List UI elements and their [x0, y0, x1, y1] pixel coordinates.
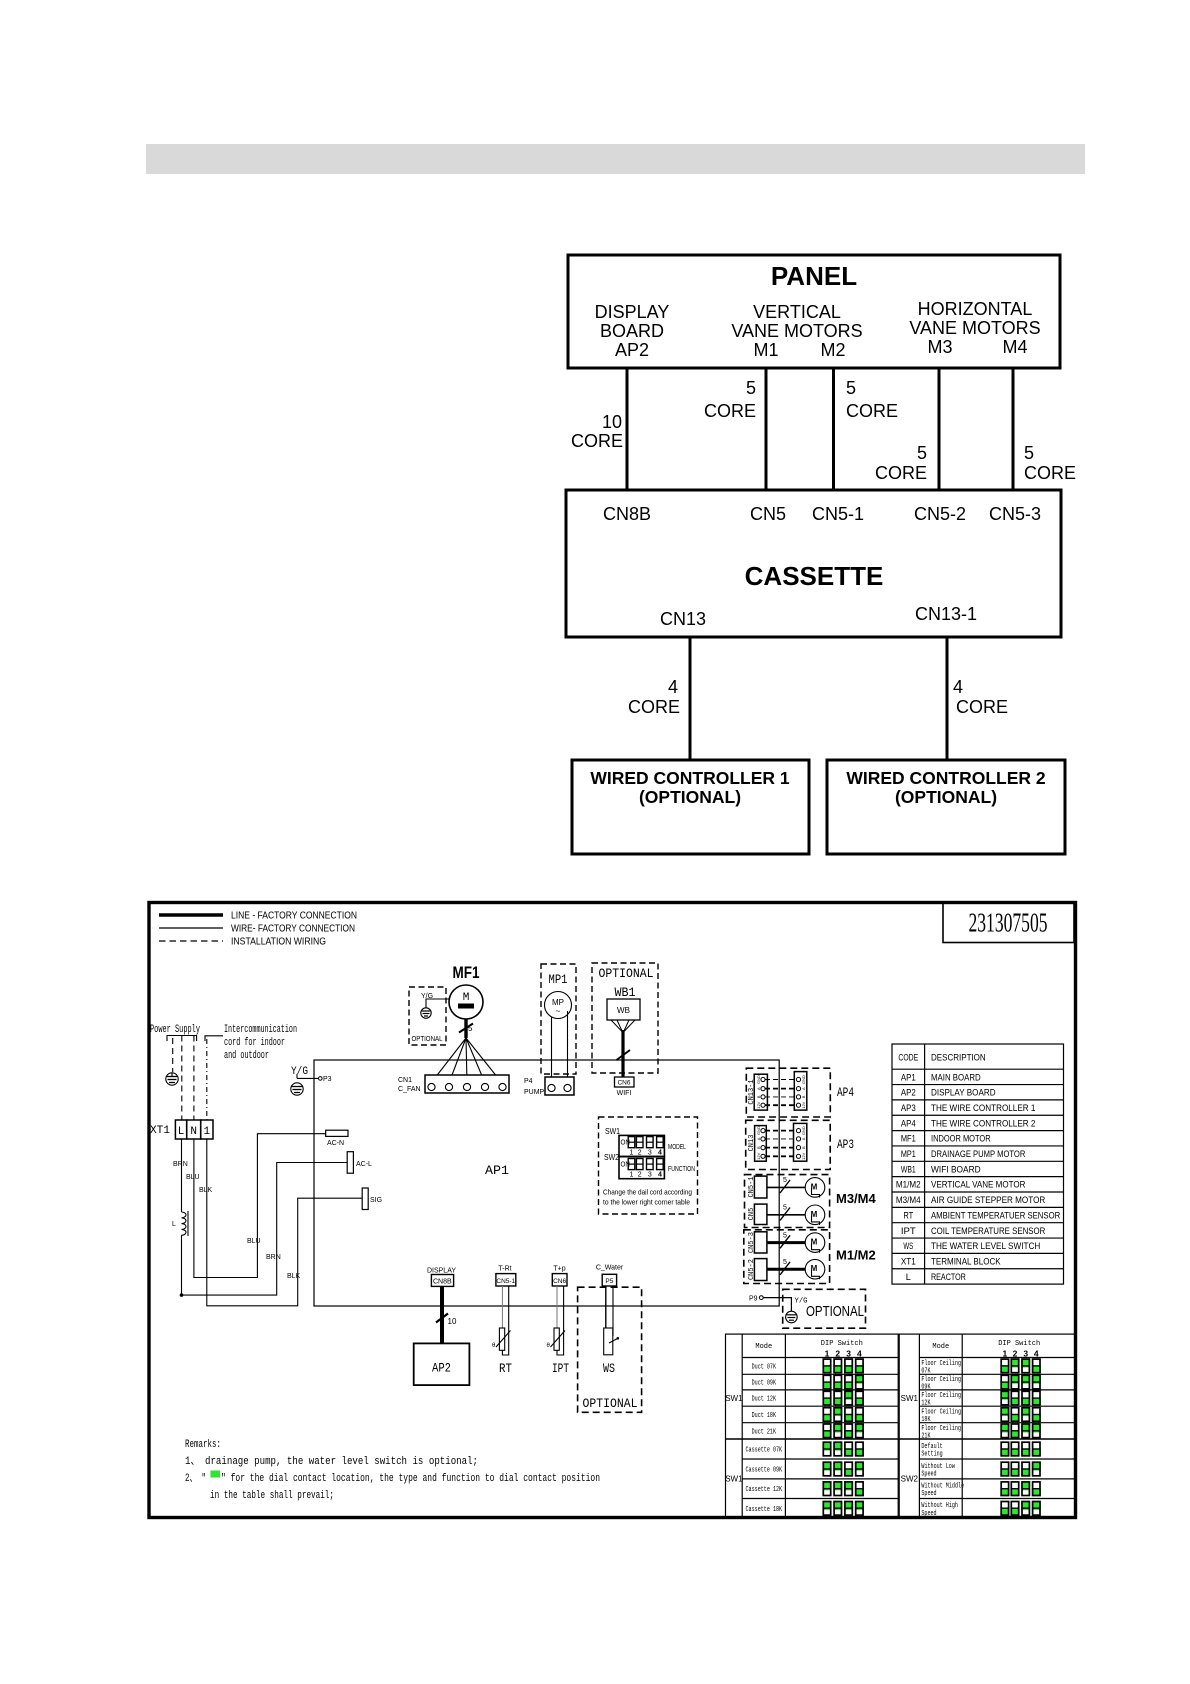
wire to RT sensor — [502, 1286, 508, 1355]
wire M4 to CN5-3 — [1012, 368, 1015, 490]
svg-text:WIRED CONTROLLER 2: WIRED CONTROLLER 2 — [846, 768, 1046, 788]
dip row Duct 21K — [752, 1424, 864, 1438]
svg-text:Cassette 09K: Cassette 09K — [746, 1467, 783, 1475]
connector P5 (C_Water) — [596, 1265, 624, 1287]
svg-text:BLU: BLU — [247, 1238, 261, 1245]
svg-text:L: L — [906, 1272, 911, 1283]
svg-text:CORE: CORE — [846, 401, 898, 421]
label 4 CORE (right) — [953, 677, 1008, 717]
svg-text:WIRE- FACTORY CONNECTION: WIRE- FACTORY CONNECTION — [231, 923, 355, 935]
wire CN5-3 to M1 (thick) — [767, 1232, 806, 1248]
svg-text:SW1: SW1 — [725, 1394, 743, 1403]
svg-text:CN5-2: CN5-2 — [914, 504, 966, 524]
connector CN5 — [748, 1204, 767, 1224]
svg-text:WS: WS — [903, 1241, 913, 1252]
wire AP2 to CN8B — [626, 368, 629, 490]
svg-text:5: 5 — [846, 378, 856, 398]
svg-text:CN13-1: CN13-1 — [748, 1079, 756, 1104]
svg-text:C_FAN: C_FAN — [398, 1086, 421, 1093]
wire power L (dashed) — [172, 1038, 174, 1072]
svg-text:XT1: XT1 — [901, 1256, 916, 1267]
sensor IPT (coil temperature) — [547, 1328, 570, 1376]
svg-text:CN5-1: CN5-1 — [812, 504, 864, 524]
svg-text:CN5-3: CN5-3 — [989, 504, 1041, 524]
dip row Floor Ceiling 12K — [921, 1391, 1040, 1407]
svg-text:A: A — [756, 1137, 761, 1140]
motor MP — [545, 992, 572, 1019]
dip row Duct 07K — [752, 1359, 864, 1373]
motor M2 — [805, 1259, 825, 1279]
svg-text:5: 5 — [783, 1259, 787, 1266]
dip row Cassette 09K — [746, 1462, 864, 1476]
svg-text:GND: GND — [801, 1075, 806, 1084]
vertical vane motors group M1/M2 (dashed box) — [744, 1230, 876, 1284]
dip table right (SW1/SW2) — [899, 1334, 1076, 1518]
svg-text:T-Rt: T-Rt — [498, 1266, 511, 1273]
wire CN13 to wired controller 1 — [689, 637, 692, 760]
wire MP1 to P4 — [552, 1011, 568, 1077]
connector AP3 side — [794, 1123, 807, 1161]
connector CN5-1 (T-Rt) — [496, 1266, 516, 1287]
svg-text:CN5-3: CN5-3 — [748, 1232, 756, 1253]
svg-text:in the table shall prevail;: in the table shall prevail; — [210, 1490, 334, 1502]
svg-text:THE WIRE CONTROLLER 1: THE WIRE CONTROLLER 1 — [931, 1103, 1035, 1114]
svg-text:PANEL: PANEL — [771, 261, 857, 291]
svg-text:2、 ": 2、 " — [185, 1473, 206, 1485]
dip table left (SW1 model) group labels — [725, 1394, 743, 1483]
svg-text:A: A — [756, 1087, 761, 1090]
svg-text:CN13: CN13 — [660, 609, 706, 629]
connector CN1 C_FAN — [398, 1075, 509, 1093]
svg-text:A: A — [801, 1137, 806, 1140]
svg-text:OPTIONAL: OPTIONAL — [599, 966, 654, 981]
svg-text:Cassette 18K: Cassette 18K — [746, 1506, 783, 1514]
connector P4 PUMP — [524, 1077, 574, 1096]
svg-text:CORE: CORE — [1024, 463, 1076, 483]
connector CN5-3 — [748, 1232, 767, 1253]
wire CN5-1 to M3 — [767, 1177, 806, 1193]
svg-text:5: 5 — [746, 378, 756, 398]
motor MF1 — [449, 985, 483, 1019]
svg-text:M3: M3 — [927, 337, 952, 357]
gray header bar — [146, 144, 1085, 174]
svg-text:231307505: 231307505 — [969, 908, 1048, 938]
diagram border frame — [149, 903, 1076, 1518]
svg-text:CORE: CORE — [875, 463, 927, 483]
ground Y/G with P3 — [291, 1066, 332, 1095]
svg-text:Mode: Mode — [755, 1343, 772, 1351]
svg-text:~: ~ — [556, 1007, 561, 1016]
svg-text:Speed: Speed — [921, 1490, 936, 1498]
svg-text:WB1: WB1 — [615, 985, 636, 1000]
svg-text:WIFI BOARD: WIFI BOARD — [931, 1164, 981, 1175]
svg-text:5: 5 — [917, 443, 927, 463]
motor M1 — [805, 1233, 825, 1253]
wire CN13-1 to wired controller 2 — [946, 637, 949, 760]
svg-text:12K: 12K — [921, 1400, 931, 1408]
svg-text:AC-L: AC-L — [356, 1161, 372, 1168]
legend: factory line connection — [159, 910, 357, 922]
terminal block XT1 — [150, 1120, 213, 1139]
svg-text:WB1: WB1 — [901, 1164, 916, 1175]
dip row Cassette 18K — [746, 1502, 864, 1516]
svg-text:CORE: CORE — [704, 401, 756, 421]
svg-text:VERTICAL: VERTICAL — [753, 302, 841, 322]
svg-text:07K: 07K — [921, 1367, 931, 1375]
dip row Default Setting — [921, 1442, 1040, 1458]
optional ground box (P9) — [783, 1289, 866, 1328]
inductor L (reactor) — [172, 1139, 188, 1236]
svg-text:Power Supply: Power Supply — [150, 1024, 200, 1036]
svg-text:AP3: AP3 — [837, 1137, 854, 1152]
svg-text:10: 10 — [602, 412, 622, 432]
svg-text:SW1: SW1 — [901, 1394, 919, 1403]
svg-text:CN5: CN5 — [748, 1208, 756, 1221]
svg-text:DRAINAGE PUMP MOTOR: DRAINAGE PUMP MOTOR — [931, 1149, 1026, 1160]
optional ground box (MF1) — [409, 987, 446, 1045]
svg-text:PUMP: PUMP — [524, 1089, 545, 1096]
svg-text:1: 1 — [630, 1172, 634, 1179]
dip table right (SW1/SW2) group labels — [901, 1394, 919, 1483]
svg-text:CODE: CODE — [898, 1053, 918, 1064]
svg-text:4: 4 — [857, 1349, 862, 1359]
svg-text:BOARD: BOARD — [600, 321, 664, 341]
svg-text:MP: MP — [552, 998, 564, 1007]
label 5 CORE (M1) — [704, 378, 756, 421]
connector CN13-1 (on AP1) — [748, 1074, 767, 1110]
svg-text:GND: GND — [756, 1075, 761, 1084]
switch WS (water level) — [603, 1328, 619, 1376]
svg-text:WIRED CONTROLLER 1: WIRED CONTROLLER 1 — [590, 768, 790, 788]
svg-text:P9: P9 — [749, 1296, 758, 1303]
svg-text:AP2: AP2 — [901, 1088, 916, 1099]
svg-text:5: 5 — [468, 1024, 473, 1033]
svg-text:AIR GUIDE STEPPER MOTOR: AIR GUIDE STEPPER MOTOR — [931, 1195, 1045, 1206]
svg-text:AMBIENT TEMPERATUER SENSOR: AMBIENT TEMPERATUER SENSOR — [931, 1210, 1060, 1221]
svg-text:Cassette 12K: Cassette 12K — [746, 1486, 783, 1494]
wire M3 to CN5-2 — [938, 368, 941, 490]
svg-text:B: B — [756, 1095, 761, 1098]
svg-text:Duct 12K: Duct 12K — [752, 1396, 777, 1404]
svg-text:(OPTIONAL): (OPTIONAL) — [639, 787, 741, 807]
svg-text:WS: WS — [603, 1361, 615, 1376]
motor M3 — [805, 1178, 825, 1198]
legend: installation wiring — [159, 936, 326, 948]
wire intercom to XT1 1 (dash-dot) — [206, 1039, 208, 1120]
svg-text:DISPLAY: DISPLAY — [595, 302, 670, 322]
wires CN13-1 to AP4 (dashed) — [765, 1080, 796, 1106]
label 5 CORE (M3) — [875, 443, 927, 483]
legend table CODE/DESCRIPTION — [892, 1044, 1064, 1284]
svg-text:P4: P4 — [524, 1078, 533, 1085]
dip row Cassette 07K — [746, 1442, 864, 1456]
connector CN8B DISPLAY — [427, 1268, 456, 1287]
dip note text — [603, 1188, 692, 1207]
dip switch box SW1/SW2 — [599, 1117, 698, 1214]
horizontal vane motors label — [909, 299, 1040, 357]
block WIRED CONTROLLER 1 — [572, 760, 809, 854]
wire to IPT sensor — [557, 1286, 564, 1355]
svg-text:Duct 07K: Duct 07K — [752, 1363, 777, 1371]
svg-text:Mode: Mode — [932, 1343, 949, 1351]
svg-text:A: A — [801, 1087, 806, 1090]
svg-text:M1/M2: M1/M2 — [896, 1180, 921, 1191]
svg-text:CN6: CN6 — [553, 1278, 566, 1285]
svg-text:P5: P5 — [605, 1278, 613, 1285]
dip table right (SW1/SW2) header — [932, 1340, 1040, 1359]
wire power to XT1 N (dashed) — [193, 1036, 195, 1121]
svg-text:4: 4 — [953, 677, 963, 697]
dip row Duct 09K — [752, 1375, 864, 1389]
label intercommunication cord — [224, 1024, 297, 1062]
svg-text:Change the dail cord according: Change the dail cord according — [603, 1188, 692, 1197]
svg-text:DISPLAY: DISPLAY — [427, 1268, 456, 1275]
wire CN5 to M4 — [767, 1205, 806, 1221]
svg-text:Duct 21K: Duct 21K — [752, 1428, 777, 1436]
svg-text:Duct 09K: Duct 09K — [752, 1380, 777, 1388]
svg-text:12V: 12V — [756, 1101, 761, 1108]
svg-text:12V: 12V — [756, 1152, 761, 1159]
wire CN5-2 to M2 (thick) — [767, 1259, 806, 1275]
wifi board WB1 (dashed box) — [592, 963, 658, 1073]
svg-text:CORE: CORE — [628, 697, 680, 717]
svg-text:CN5-2: CN5-2 — [748, 1259, 756, 1280]
svg-text:CN5-1: CN5-1 — [496, 1278, 515, 1285]
svg-text:3: 3 — [846, 1349, 851, 1359]
label 5 CORE (M2) — [846, 378, 898, 421]
component AC-N — [326, 1130, 348, 1147]
svg-text:AP4: AP4 — [837, 1085, 854, 1100]
svg-text:L: L — [172, 1221, 176, 1228]
optional box (water level switch) — [578, 1287, 642, 1412]
svg-text:B: B — [801, 1095, 806, 1098]
svg-text:XT1: XT1 — [150, 1125, 170, 1137]
wire MF1 to CN1 (5 core) — [431, 1019, 502, 1083]
svg-text:09K: 09K — [921, 1384, 931, 1392]
svg-text:SW2: SW2 — [604, 1153, 619, 1162]
svg-text:GND: GND — [801, 1126, 806, 1135]
svg-text:4: 4 — [658, 1150, 662, 1157]
motor M4 — [805, 1205, 825, 1225]
svg-text:THE WATER LEVEL SWITCH: THE WATER LEVEL SWITCH — [931, 1241, 1040, 1252]
dip switch SW1 (MODEL) — [619, 1135, 686, 1156]
svg-text:GND: GND — [756, 1126, 761, 1135]
svg-text:M1: M1 — [753, 340, 778, 360]
svg-text:2: 2 — [1013, 1349, 1018, 1359]
svg-text:L: L — [178, 1126, 185, 1138]
svg-text:4: 4 — [1034, 1349, 1039, 1359]
component SIG — [362, 1188, 382, 1210]
wire to WS switch — [606, 1286, 613, 1336]
dip row Floor Ceiling 09K — [921, 1375, 1040, 1391]
connector CN6 WIFI — [615, 1077, 635, 1097]
legend: wire factory connection — [159, 923, 355, 935]
svg-text:BRN: BRN — [173, 1161, 188, 1168]
svg-text:Y/G: Y/G — [291, 1066, 308, 1078]
svg-text:WB: WB — [617, 1006, 630, 1015]
svg-text:12V: 12V — [801, 1101, 806, 1108]
wire power to XT1 L (dashed) — [181, 1036, 183, 1121]
display board AP2 — [414, 1343, 470, 1385]
block CASSETTE — [566, 490, 1061, 637]
svg-text:1: 1 — [825, 1349, 830, 1359]
svg-text:CN8B: CN8B — [433, 1279, 452, 1286]
svg-text:M2: M2 — [820, 340, 845, 360]
component AC-L — [347, 1152, 372, 1174]
wire MF1 ground — [426, 999, 449, 1008]
svg-text:DIP Switch: DIP Switch — [998, 1340, 1040, 1348]
svg-text:WIFI: WIFI — [617, 1090, 632, 1097]
svg-text:BRN: BRN — [266, 1254, 281, 1261]
svg-text:Remarks:: Remarks: — [185, 1439, 221, 1451]
svg-text:CASSETTE: CASSETTE — [745, 561, 884, 591]
dip switch SW2 (FUNCTION) — [619, 1157, 695, 1179]
svg-text:MP1: MP1 — [901, 1149, 916, 1160]
svg-text:SW1: SW1 — [725, 1475, 743, 1484]
svg-text:21K: 21K — [921, 1432, 931, 1440]
connector AP4 side — [794, 1072, 807, 1111]
svg-text:VERTICAL VANE MOTOR: VERTICAL VANE MOTOR — [931, 1180, 1026, 1191]
svg-text:MF1: MF1 — [453, 963, 480, 982]
svg-text:DESCRIPTION: DESCRIPTION — [931, 1053, 986, 1064]
display board AP2 label — [595, 302, 670, 360]
svg-text:CN13-1: CN13-1 — [915, 604, 977, 624]
connector CN5-2 — [748, 1259, 767, 1281]
dip row Duct 18K — [752, 1408, 864, 1422]
svg-text:3: 3 — [648, 1150, 652, 1157]
svg-text:BLK: BLK — [287, 1273, 301, 1280]
svg-text:DIP Switch: DIP Switch — [821, 1340, 863, 1348]
wire BRN: L terminal to AC-L — [182, 1163, 348, 1296]
svg-text:2: 2 — [638, 1172, 642, 1179]
block PANEL — [568, 255, 1060, 368]
svg-text:IPT: IPT — [901, 1226, 916, 1237]
title box 231307505 — [943, 903, 1074, 943]
dip row Floor Ceiling 18K — [921, 1408, 1040, 1424]
connector CN6 (T+p) — [552, 1266, 567, 1287]
sensor RT (ambient temperature) — [492, 1328, 512, 1376]
label 4 CORE (left) — [628, 677, 680, 717]
svg-text:CORE: CORE — [956, 697, 1008, 717]
svg-text:4: 4 — [668, 677, 678, 697]
svg-text:1: 1 — [1003, 1349, 1008, 1359]
svg-text:1: 1 — [203, 1126, 210, 1138]
power supply bracket — [167, 1036, 197, 1042]
svg-text:3: 3 — [648, 1172, 652, 1179]
dip row Floor Ceiling 21K — [921, 1424, 1040, 1440]
ground (power supply) — [166, 1073, 178, 1085]
svg-text:CN8B: CN8B — [603, 504, 651, 524]
drainage pump MP1 (dashed box) — [541, 964, 576, 1074]
svg-text:T+p: T+p — [553, 1266, 565, 1273]
svg-text:CN5-1: CN5-1 — [748, 1176, 756, 1197]
svg-text:P3: P3 — [323, 1076, 332, 1083]
svg-text:IPT: IPT — [552, 1361, 569, 1376]
svg-text:AP2: AP2 — [615, 340, 649, 360]
svg-text:COIL TEMPERATURE SENSOR: COIL TEMPERATURE SENSOR — [931, 1226, 1045, 1237]
svg-text:BLK: BLK — [199, 1187, 213, 1194]
label 10 CORE — [571, 412, 623, 451]
svg-text:5: 5 — [783, 1177, 787, 1184]
connector CN5-1 — [748, 1176, 767, 1198]
svg-text:θ: θ — [492, 1343, 496, 1349]
svg-text:M4: M4 — [1002, 337, 1027, 357]
svg-text:B: B — [801, 1146, 806, 1149]
wires CN13 to AP3 (dashed) — [765, 1131, 796, 1157]
svg-text:2: 2 — [638, 1150, 642, 1157]
svg-text:OPTIONAL: OPTIONAL — [583, 1396, 638, 1411]
svg-text:SW2: SW2 — [901, 1475, 919, 1484]
svg-text:" for the dial contact locatio: " for the dial contact location, the typ… — [221, 1473, 600, 1485]
svg-text:5: 5 — [1024, 443, 1034, 463]
dip row Cassette 12K — [746, 1482, 864, 1496]
svg-text:M3/M4: M3/M4 — [836, 1191, 877, 1206]
dip row Without Low Speed — [921, 1462, 1040, 1478]
svg-text:2: 2 — [835, 1349, 840, 1359]
svg-text:M3/M4: M3/M4 — [896, 1195, 921, 1206]
vertical vane motors label — [731, 302, 862, 360]
svg-text:CN5: CN5 — [750, 504, 786, 524]
svg-text:1、 drainage pump, the water le: 1、 drainage pump, the water level switch… — [185, 1456, 478, 1468]
svg-text:VANE MOTORS: VANE MOTORS — [731, 321, 862, 341]
svg-text:5: 5 — [783, 1232, 787, 1239]
svg-text:AP3: AP3 — [901, 1103, 916, 1114]
svg-text:MP1: MP1 — [549, 972, 568, 987]
dip table left (SW1 model) header — [755, 1340, 862, 1359]
svg-text:1: 1 — [630, 1150, 634, 1157]
svg-text:Speed: Speed — [921, 1510, 936, 1518]
svg-text:AC-N: AC-N — [327, 1140, 344, 1147]
block WIRED CONTROLLER 2 — [827, 760, 1065, 854]
dip row Without Middle Speed — [921, 1482, 1040, 1498]
svg-text:TERMINAL BLOCK: TERMINAL BLOCK — [931, 1256, 1001, 1267]
svg-text:MF1: MF1 — [901, 1134, 916, 1145]
svg-text:and outdoor: and outdoor — [224, 1050, 269, 1062]
svg-text:5: 5 — [783, 1205, 787, 1212]
remarks text — [185, 1439, 600, 1502]
wire CN8B to AP2 (10 core) — [436, 1286, 457, 1343]
svg-text:θ: θ — [547, 1343, 551, 1349]
svg-text:to the lower right corner tabl: to the lower right corner table — [603, 1198, 690, 1207]
svg-text:OPTIONAL: OPTIONAL — [412, 1036, 443, 1043]
label 5 CORE (M4) — [1024, 443, 1076, 483]
svg-text:cord for indoor: cord for indoor — [224, 1037, 285, 1049]
svg-text:THE WIRE CONTROLLER 2: THE WIRE CONTROLLER 2 — [931, 1118, 1035, 1129]
svg-text:CN13: CN13 — [748, 1135, 756, 1152]
wire controller 2 group (AP4, dashed box) — [746, 1068, 854, 1117]
svg-text:MAIN BOARD: MAIN BOARD — [931, 1072, 981, 1083]
intercommunication bracket — [205, 1036, 223, 1041]
svg-text:M: M — [463, 992, 470, 1004]
svg-text:LINE - FACTORY CONNECTION: LINE - FACTORY CONNECTION — [231, 910, 357, 922]
dip row Duct 12K — [752, 1391, 864, 1405]
svg-text:FUNCTION: FUNCTION — [668, 1166, 695, 1173]
svg-text:SIG: SIG — [370, 1197, 382, 1204]
main board AP1 — [314, 1060, 779, 1306]
svg-text:AP4: AP4 — [901, 1118, 916, 1129]
svg-text:10: 10 — [448, 1317, 457, 1326]
wire M1 to CN5 — [765, 368, 768, 490]
svg-text:18K: 18K — [921, 1416, 931, 1424]
svg-text:Duct 18K: Duct 18K — [752, 1412, 777, 1420]
wire BLU: N terminal to AC-N — [194, 1134, 326, 1278]
dip row Without High Speed — [921, 1502, 1040, 1518]
svg-text:3: 3 — [1023, 1349, 1028, 1359]
svg-text:B: B — [756, 1146, 761, 1149]
svg-text:RT: RT — [903, 1210, 913, 1221]
svg-text:CN1: CN1 — [398, 1077, 412, 1084]
svg-text:CN6: CN6 — [617, 1080, 630, 1087]
